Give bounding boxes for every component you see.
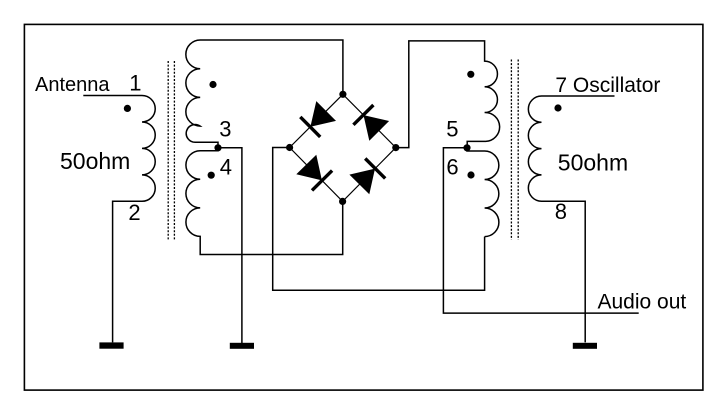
svg-text:1: 1 [129, 70, 141, 95]
svg-text:50ohm: 50ohm [60, 148, 130, 174]
svg-text:3: 3 [219, 116, 231, 141]
svg-text:8: 8 [555, 199, 567, 224]
svg-text:Audio out: Audio out [598, 290, 687, 313]
svg-text:4: 4 [220, 155, 232, 180]
svg-text:6: 6 [446, 155, 458, 180]
svg-text:50ohm: 50ohm [558, 150, 628, 176]
svg-text:2: 2 [128, 200, 140, 225]
svg-text:Antenna: Antenna [35, 74, 110, 96]
svg-text:5: 5 [446, 117, 458, 142]
svg-text:7 Oscillator: 7 Oscillator [555, 74, 660, 97]
